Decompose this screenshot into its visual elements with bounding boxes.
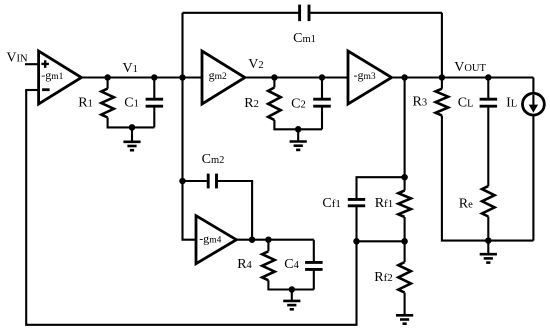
svg-text:C4: C4: [284, 257, 299, 272]
svg-text:V2: V2: [248, 57, 263, 72]
svg-text:R4: R4: [237, 257, 252, 272]
svg-text:R1: R1: [78, 95, 93, 110]
svg-text:Cm2: Cm2: [202, 152, 225, 167]
svg-text:Cf1: Cf1: [322, 196, 341, 211]
svg-text:IL: IL: [506, 96, 517, 111]
svg-text:Cm1: Cm1: [293, 31, 316, 46]
svg-text:V1: V1: [123, 61, 138, 76]
svg-text:R3: R3: [413, 95, 428, 110]
svg-text:C1: C1: [124, 95, 139, 110]
svg-text:VIN: VIN: [6, 50, 28, 65]
svg-text:Rf1: Rf1: [375, 196, 394, 211]
svg-text:Rf2: Rf2: [374, 270, 393, 285]
svg-text:VOUT: VOUT: [454, 60, 486, 75]
svg-text:R2: R2: [244, 96, 259, 111]
svg-text:C2: C2: [291, 96, 306, 111]
svg-text:CL: CL: [458, 96, 474, 111]
svg-text:Re: Re: [459, 197, 473, 212]
